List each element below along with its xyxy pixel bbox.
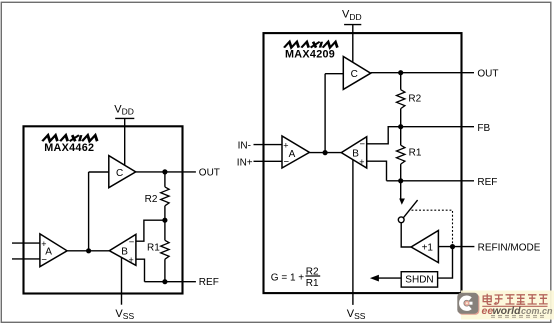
buffer +1 (REFIN buffer) [411, 231, 438, 263]
wire VDD to op-amp C (left) [124, 118, 126, 165]
svg-text:DD: DD [349, 12, 361, 22]
svg-text:FB: FB [477, 123, 490, 134]
node: REF junction (right) [398, 178, 403, 183]
resistor R1 (right) [397, 127, 422, 181]
switch SW (REF mode switch) [398, 181, 417, 223]
svg-text:−: − [360, 139, 366, 150]
svg-text:IN-: IN- [238, 141, 251, 152]
svg-text:R1: R1 [306, 278, 319, 289]
node: R2/R1 junction (left) [162, 218, 167, 223]
svg-text:DD: DD [122, 107, 134, 117]
svg-text:REFIN/MODE: REFIN/MODE [478, 243, 541, 254]
svg-text:−: − [129, 237, 135, 248]
SHDN output arrow [370, 275, 401, 282]
svg-text:B: B [121, 247, 128, 258]
op-amp C (right output buffer) [343, 57, 370, 90]
eeworld watermark [457, 291, 554, 320]
wire B to VSS (right) [352, 160, 354, 305]
MAX4209 IC boundary box [264, 33, 462, 293]
svg-text:.com.cn: .com.cn [519, 306, 554, 316]
wire REF line to pin (right) [387, 180, 475, 182]
svg-text:IN+: IN+ [237, 158, 253, 169]
wire VDD to op-amp C (right) [352, 25, 354, 63]
FB pin label [477, 123, 490, 134]
node: REF junction (left) [162, 279, 167, 284]
svg-text:OUT: OUT [477, 69, 498, 80]
svg-text:OUT: OUT [199, 167, 220, 178]
wire B +input to REF line (right) [367, 161, 387, 181]
MAX4209 part label [285, 49, 335, 61]
wire B -input to R2/R1 junction (left) [136, 220, 165, 241]
VSS supply label (right) [347, 308, 366, 321]
node: REFIN/MODE junction [450, 244, 455, 249]
wire riser node to C input (left) [89, 172, 109, 251]
svg-text:REF: REF [199, 277, 219, 288]
REF pin label (left) [199, 277, 219, 288]
svg-text:R1: R1 [409, 148, 422, 159]
op-amp A (left) [40, 234, 67, 267]
eeworld watermark slogan [491, 316, 544, 318]
svg-text:SS: SS [123, 311, 135, 321]
svg-text:C: C [116, 168, 123, 179]
wire IN- to A +input [254, 144, 283, 146]
node: OUT / R2 junction (left) [162, 169, 167, 174]
resistor R2 (right) [397, 73, 422, 127]
wire +1 buffer to REFIN/MODE pin [438, 246, 474, 248]
wire node to op-amp B apex (left) [89, 250, 110, 252]
wire riser node to C input (right) [325, 74, 343, 153]
op-amp C (MAX4462 output buffer) [109, 156, 136, 188]
op-amp A (right) [282, 136, 309, 168]
svg-text:MAX4209: MAX4209 [285, 49, 335, 61]
svg-text:SS: SS [354, 311, 366, 321]
wire C output to OUT pin (left) [136, 171, 196, 173]
wire REF line to pin (left) [145, 281, 196, 283]
svg-text:SHDN: SHDN [405, 275, 433, 286]
node: A/B output junction (left) [86, 248, 91, 253]
svg-text:−: − [284, 157, 290, 168]
IN- pin label [238, 141, 251, 152]
svg-text:A: A [289, 149, 296, 160]
svg-text:MAX4462: MAX4462 [44, 142, 94, 154]
eeworld watermark domain text [482, 305, 554, 317]
wire A output to node (left) [67, 250, 89, 252]
MAXIM logo (left) [42, 135, 99, 141]
resistor R1 (left) [147, 220, 169, 282]
REF pin label (right) [477, 177, 497, 188]
wire A -input (left) [12, 258, 40, 260]
node: FB junction (right) [398, 124, 403, 129]
op-amp B (left, feedback amp) [109, 234, 136, 265]
svg-text:C: C [351, 69, 358, 80]
svg-text:R2: R2 [145, 194, 158, 205]
svg-text:R1: R1 [147, 242, 160, 253]
svg-text:REF: REF [477, 177, 497, 188]
op-amp B (right feedback amp) [341, 137, 366, 168]
MAX4462 part label [44, 142, 94, 154]
wire REFIN/MODE node to SHDN box [438, 247, 453, 279]
wire switch to +1 buffer input [401, 223, 411, 247]
wire C output to OUT pin (right) [371, 72, 474, 74]
svg-text:+: + [129, 255, 134, 265]
svg-text:+: + [41, 239, 46, 249]
eeworld watermark chinese title [482, 294, 547, 307]
svg-text:+1: +1 [422, 243, 434, 254]
VDD supply terminal (left) [114, 103, 134, 118]
node: A/B output junction (right) [323, 150, 328, 155]
svg-text:−: − [41, 255, 47, 266]
gain formula G = 1 + R2/R1 [271, 266, 320, 289]
MAXIM logo (right) [284, 42, 339, 48]
wire B to VSS (left) [121, 257, 123, 304]
wire IN+ to A -input [254, 160, 283, 162]
wire B -input to FB node (right) [367, 127, 401, 144]
REFIN/MODE pin label [478, 243, 541, 254]
OUT pin label (left) [199, 167, 220, 178]
SHDN block [401, 272, 437, 287]
svg-text:B: B [352, 148, 359, 159]
svg-text:R2: R2 [408, 94, 421, 105]
dashed control line REFIN/MODE to switch [412, 210, 453, 244]
MAX4462 IC boundary box [24, 126, 183, 293]
wire FB line to pin [401, 126, 474, 128]
node: OUT / R2 junction (right) [398, 70, 403, 75]
svg-text:G = 1 +: G = 1 + [271, 272, 305, 283]
resistor R2 (left) [145, 172, 170, 220]
OUT pin label (right) [477, 69, 498, 80]
wire A +input (left) [12, 242, 40, 244]
svg-text:+: + [283, 140, 288, 150]
VSS supply label (left) [115, 308, 134, 321]
wire B +input to REF line (left) [136, 259, 145, 282]
wire A output to node (right) [309, 152, 341, 154]
svg-text:+: + [359, 157, 364, 167]
VDD supply terminal (right) [342, 9, 362, 25]
IN+ pin label [237, 158, 253, 169]
